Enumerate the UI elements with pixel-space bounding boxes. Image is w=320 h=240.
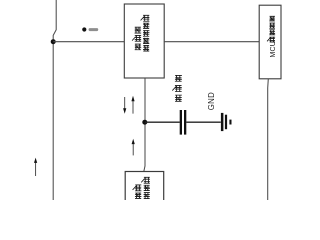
node junction capacitor branch	[142, 120, 147, 125]
block U2: MCU control system	[259, 5, 281, 79]
block U1: supercapacitor charge/discharge control	[124, 4, 164, 78]
label 超电容 (box line 1, rotated)	[132, 27, 141, 50]
arrow supply current (up, mid)	[132, 139, 135, 156]
block U3: power source system (cut off at bottom)	[125, 172, 164, 205]
label 充放电控制 (box line 2, rotated)	[141, 15, 150, 51]
wire MCU down to edge	[267, 79, 270, 200]
arrow discharge direction (up)	[131, 96, 134, 114]
wire to capacitor C1	[145, 121, 180, 123]
wire left supply rail	[53, 0, 56, 200]
label 控制系统 (rotated)	[267, 16, 275, 42]
wire charge-control down to source box	[144, 78, 145, 172]
capacitor C1 (supercapacitor) plates	[180, 110, 182, 135]
label 蓄电池 (box line 1, rotated, clipped)	[133, 185, 142, 206]
wire charge-control to MCU	[164, 41, 259, 43]
node junction rail/top-wire	[51, 39, 56, 44]
svg-text:GND: GND	[207, 92, 216, 110]
wire rail to charge-control box	[53, 41, 124, 43]
arrow charge direction (down)	[123, 97, 126, 114]
label 超电容 (capacitor value label, rotated)	[172, 75, 182, 101]
label 供电系统 (box line 2, rotated, clipped)	[141, 177, 150, 206]
svg-text:MCU: MCU	[270, 41, 277, 58]
arrow rail current (up, left)	[34, 158, 37, 176]
label smudge (illegible tiny text)	[89, 28, 99, 31]
node legend dot	[82, 27, 86, 31]
ground symbol	[221, 113, 232, 131]
wire capacitor C1 to ground	[186, 121, 221, 123]
